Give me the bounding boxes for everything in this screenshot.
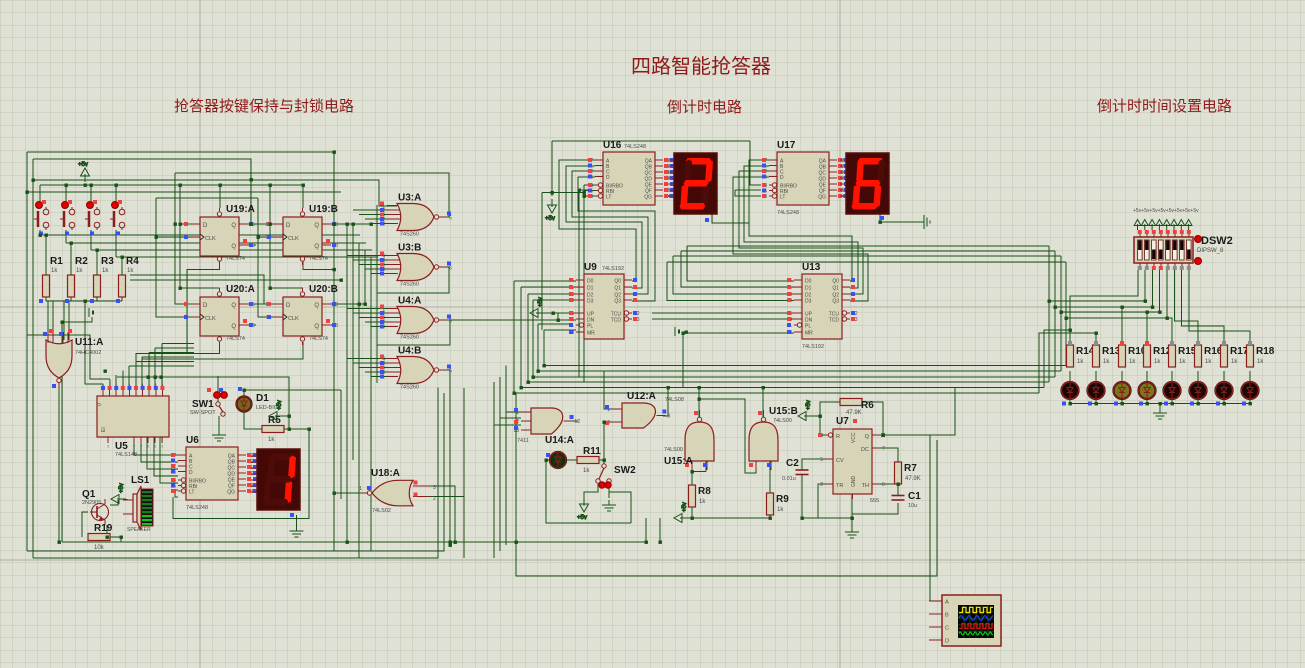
nor gate U18:A mirrored bbox=[359, 468, 436, 514]
svg-text:1k: 1k bbox=[102, 268, 109, 274]
svg-text:1k: 1k bbox=[127, 268, 134, 274]
svg-text:1k: 1k bbox=[1103, 359, 1110, 365]
svg-text:74LS00: 74LS00 bbox=[664, 447, 683, 453]
wire: battery drop bbox=[84, 301, 86, 307]
svg-text:+5v: +5v bbox=[538, 297, 544, 307]
svg-text:1k: 1k bbox=[777, 507, 784, 513]
power +5v bbox=[78, 162, 90, 182]
wire: R6 loop and 555 bbox=[820, 402, 840, 435]
push button 4 bbox=[110, 200, 125, 230]
power +5v bbox=[577, 498, 589, 521]
wire: U3B output down bbox=[377, 267, 449, 293]
svg-text:Q: Q bbox=[314, 223, 319, 229]
svg-text:QG: QG bbox=[227, 490, 235, 496]
push button 1 bbox=[34, 200, 49, 230]
svg-text:CLK: CLK bbox=[205, 316, 216, 322]
push button 3 bbox=[85, 200, 100, 230]
wire: U3A output loop bbox=[175, 173, 449, 217]
wire: 555 ground column bbox=[851, 494, 853, 527]
svg-text:SW-SPOT: SW-SPOT bbox=[190, 410, 216, 416]
svg-text:74S260: 74S260 bbox=[400, 335, 419, 341]
LED for R10 bbox=[1114, 382, 1131, 399]
svg-text:D0: D0 bbox=[805, 279, 812, 285]
oscilloscope bbox=[929, 595, 1001, 646]
svg-text:QG: QG bbox=[644, 195, 652, 201]
svg-text:TCD: TCD bbox=[829, 318, 840, 324]
resistor R9 bbox=[767, 493, 790, 515]
resistor R11 bbox=[577, 446, 601, 474]
svg-text:R3: R3 bbox=[101, 256, 114, 267]
resistor R19 bbox=[88, 523, 113, 551]
wire: gate input taps bbox=[353, 209, 397, 211]
svg-text:MR: MR bbox=[587, 331, 595, 337]
wire: 555 TR loop bbox=[818, 484, 852, 518]
svg-text:74LS148: 74LS148 bbox=[115, 452, 137, 458]
svg-text:+5v: +5v bbox=[545, 216, 555, 222]
svg-text:1k: 1k bbox=[268, 437, 275, 443]
resistor R18 bbox=[1247, 345, 1275, 367]
svg-text:Q: Q bbox=[314, 244, 319, 250]
power +5v dip 6 bbox=[1171, 220, 1178, 231]
svg-text:TR: TR bbox=[836, 483, 843, 489]
wire: right mid horizontals to DIP columns bbox=[1049, 300, 1145, 302]
svg-text:U19:B: U19:B bbox=[309, 204, 338, 215]
svg-text:Q: Q bbox=[231, 324, 236, 330]
counter U9 74LS192 bbox=[568, 262, 639, 339]
svg-text:R11: R11 bbox=[583, 446, 601, 457]
svg-text:U6: U6 bbox=[186, 435, 199, 446]
wire: U4B output down bbox=[444, 370, 450, 542]
seven segment display showing 1 bbox=[251, 449, 300, 510]
nor gate U3:A bbox=[379, 193, 452, 238]
wire: U18A inputs and output bbox=[334, 492, 361, 494]
svg-text:74LS248: 74LS248 bbox=[624, 144, 646, 150]
wire: U12A output up to bus bbox=[663, 388, 668, 417]
wire: button staircase row 2 bbox=[66, 242, 366, 244]
wire: U11A input feeds bbox=[47, 301, 49, 340]
svg-text:74LS192: 74LS192 bbox=[602, 266, 624, 272]
resistor R5 bbox=[262, 415, 284, 443]
push button 2 bbox=[60, 200, 75, 230]
power +5v dip 8 bbox=[1185, 220, 1192, 231]
and gate U12:A bbox=[605, 391, 684, 428]
nand gate U15:A bbox=[685, 410, 714, 470]
svg-text:6: 6 bbox=[449, 266, 452, 272]
flip-flop U20:A bbox=[184, 284, 255, 345]
wire: U6 LT RBI links bbox=[175, 489, 178, 491]
wire: FF preset/clear links bbox=[219, 185, 221, 208]
svg-text:R6: R6 bbox=[861, 400, 874, 411]
svg-text:CLK: CLK bbox=[288, 236, 299, 242]
svg-text:Q: Q bbox=[231, 223, 236, 229]
svg-text:DIPSW_8: DIPSW_8 bbox=[1197, 248, 1224, 254]
svg-text:6: 6 bbox=[882, 482, 885, 488]
wire: U9 nested loops to bus bbox=[514, 280, 576, 282]
nand gate U15:B bbox=[749, 406, 798, 470]
svg-text:C: C bbox=[945, 626, 949, 632]
LED D1 bbox=[237, 397, 252, 412]
transistor Q1 bbox=[90, 499, 109, 525]
wire: left long vertical 2 bbox=[32, 159, 34, 558]
and gate U14:A bbox=[513, 408, 580, 446]
wire: +5v into U9 UP bbox=[544, 312, 576, 314]
power +5v bbox=[798, 400, 812, 420]
wire: left long vertical 1 bbox=[26, 152, 28, 551]
junction dots bbox=[65, 184, 68, 187]
svg-text:U3:B: U3:B bbox=[398, 243, 421, 254]
svg-text:DC: DC bbox=[861, 447, 869, 453]
svg-text:CLK: CLK bbox=[288, 316, 299, 322]
svg-text:U15:A: U15:A bbox=[664, 456, 693, 467]
svg-text:1k: 1k bbox=[1205, 359, 1212, 365]
wire: R1-R4 verticals bbox=[45, 235, 47, 275]
svg-text:SW2: SW2 bbox=[614, 465, 636, 476]
display bottom squares bbox=[705, 218, 709, 222]
wire: SW1 column bbox=[217, 376, 219, 402]
wire: mid rows to U20 D inputs bbox=[130, 275, 274, 304]
svg-text:B: B bbox=[945, 613, 949, 619]
svg-text:LT: LT bbox=[780, 195, 785, 201]
svg-text:C1: C1 bbox=[908, 491, 921, 502]
svg-text:1k: 1k bbox=[76, 268, 83, 274]
power +5v bbox=[674, 502, 688, 522]
ground LED row bbox=[1153, 408, 1167, 419]
svg-text:U13: U13 bbox=[802, 262, 821, 273]
svg-text:U4:A: U4:A bbox=[398, 296, 421, 307]
svg-text:Q1: Q1 bbox=[832, 286, 839, 292]
svg-text:DSW2: DSW2 bbox=[1201, 235, 1233, 247]
svg-text:Q: Q bbox=[865, 434, 870, 440]
svg-text:D3: D3 bbox=[587, 299, 594, 305]
wire: U11A output down to bottom bus bbox=[58, 382, 60, 542]
nor gate U4:B bbox=[379, 346, 452, 391]
wire: U16 RBI LT drops bbox=[579, 190, 590, 377]
pin squares near buttons and resistors bbox=[39, 232, 43, 236]
svg-text:+5v: +5v bbox=[682, 502, 688, 512]
wire: R10 R12 drops from mid horizontals bbox=[1121, 307, 1123, 345]
svg-text:U19:A: U19:A bbox=[226, 204, 255, 215]
wire: bottom bus 558 bbox=[33, 388, 438, 559]
ground right of display2 bbox=[921, 215, 930, 229]
power +5v dip 1 bbox=[1134, 220, 1141, 231]
wire: dark LED loop bbox=[546, 459, 550, 461]
svg-text:3: 3 bbox=[433, 485, 436, 491]
wire: R8 column bbox=[691, 472, 693, 485]
wire: row y192 to vertical 341 bbox=[27, 191, 341, 193]
svg-text:U12:A: U12:A bbox=[627, 391, 656, 402]
wire: U12A input feeds bbox=[604, 371, 612, 409]
flip-flop U19:B bbox=[265, 204, 338, 265]
resistor R17 bbox=[1221, 345, 1249, 367]
svg-text:+5v+5v+5v+5v+5v+5v+5v+5v: +5v+5v+5v+5v+5v+5v+5v+5v bbox=[1133, 208, 1199, 214]
wire: D1 to R5 bbox=[244, 411, 262, 429]
wire: row y180 to U3A pin1 bbox=[33, 180, 397, 206]
capacitor C2 bbox=[796, 470, 809, 475]
LED for R12 bbox=[1139, 382, 1156, 399]
svg-text:D: D bbox=[945, 639, 949, 645]
wire: bundle verticals bbox=[346, 224, 348, 542]
svg-text:2N2905: 2N2905 bbox=[82, 500, 101, 506]
svg-text:1k: 1k bbox=[51, 268, 58, 274]
wire: U17 staircase from U13 bbox=[749, 160, 852, 281]
svg-text:74LS248: 74LS248 bbox=[777, 210, 799, 216]
resistor R12 bbox=[1144, 345, 1172, 367]
wire: U14A input feeds bbox=[505, 366, 507, 546]
nor gate U3:B bbox=[379, 243, 452, 288]
power +5v dip 5 bbox=[1163, 220, 1170, 231]
wire: FF D/CLK feeds bbox=[156, 197, 258, 199]
svg-text:74LS00: 74LS00 bbox=[773, 418, 792, 424]
svg-text:74LS74: 74LS74 bbox=[309, 336, 328, 342]
battery near U13 bbox=[675, 327, 679, 336]
svg-text:10u: 10u bbox=[908, 503, 917, 509]
svg-text:5: 5 bbox=[449, 319, 452, 325]
svg-text:7: 7 bbox=[882, 446, 885, 452]
flip-flop U19:A bbox=[184, 204, 255, 265]
wire: button column x=66 bbox=[65, 185, 67, 205]
wire: U17 BI RBI LT feeds bbox=[750, 141, 761, 185]
svg-text:1k: 1k bbox=[1154, 359, 1161, 365]
wire: display3 ground bbox=[296, 515, 298, 531]
resistor R1 bbox=[43, 256, 64, 297]
svg-text:EI: EI bbox=[101, 427, 107, 432]
svg-text:+5v: +5v bbox=[806, 400, 812, 410]
svg-text:555: 555 bbox=[870, 498, 879, 504]
wire: button staircase row 4 bbox=[116, 256, 378, 258]
nor gate U4:A bbox=[379, 296, 452, 341]
svg-text:SPEAKER: SPEAKER bbox=[127, 527, 151, 533]
wire: bottom bus 542 from R19 bbox=[62, 541, 648, 543]
svg-text:R8: R8 bbox=[698, 486, 711, 497]
svg-text:U14:A: U14:A bbox=[545, 435, 574, 446]
svg-text:R4: R4 bbox=[126, 256, 139, 267]
seven segment display showing 6 bbox=[840, 153, 889, 214]
wire: R11 to SW2 bbox=[599, 460, 604, 464]
resistor R15 bbox=[1169, 345, 1197, 367]
svg-text:74HC4002: 74HC4002 bbox=[75, 350, 101, 356]
resistor R10 bbox=[1119, 345, 1147, 367]
dip switch DSW2 bbox=[1134, 230, 1233, 270]
svg-text:+5v: +5v bbox=[78, 162, 88, 168]
svg-text:D: D bbox=[203, 303, 208, 309]
svg-text:QG: QG bbox=[818, 195, 826, 201]
svg-text:Q0: Q0 bbox=[614, 279, 621, 285]
seven segment display showing 2 bbox=[668, 153, 717, 214]
svg-text:1: 1 bbox=[359, 486, 362, 492]
svg-text:74LS74: 74LS74 bbox=[226, 336, 245, 342]
flip-flop U20:B bbox=[265, 284, 338, 345]
resistor R7 bbox=[895, 462, 921, 484]
wire: SW2 throw wires bbox=[584, 484, 598, 498]
svg-text:2: 2 bbox=[433, 496, 436, 502]
wire: U15A inputs bbox=[691, 461, 693, 472]
wire: top-left horizontal run 1 bbox=[27, 151, 334, 153]
svg-text:74S260: 74S260 bbox=[400, 385, 419, 391]
ground under 555 bbox=[845, 527, 859, 538]
wire: resistor bottom bus bbox=[46, 300, 122, 302]
wire: scope drop bbox=[929, 435, 931, 601]
svg-text:D1: D1 bbox=[805, 286, 812, 292]
svg-text:1k: 1k bbox=[699, 499, 706, 505]
svg-text:TCD: TCD bbox=[611, 318, 622, 324]
svg-text:74LS74: 74LS74 bbox=[226, 256, 245, 262]
svg-text:5: 5 bbox=[449, 216, 452, 222]
power +5v bbox=[545, 199, 557, 222]
wire: U9 TCU TCD cascade to U13 bbox=[652, 312, 794, 314]
svg-text:A: A bbox=[945, 600, 949, 606]
svg-text:倒计时电路: 倒计时电路 bbox=[667, 99, 742, 116]
svg-text:U17: U17 bbox=[777, 140, 796, 151]
wire: U14A output bbox=[566, 420, 578, 422]
svg-text:Q: Q bbox=[314, 303, 319, 309]
svg-text:1k: 1k bbox=[1257, 359, 1264, 365]
svg-text:U16: U16 bbox=[603, 140, 622, 151]
svg-text:Q: Q bbox=[314, 324, 319, 330]
wire: U4A output to U9 DN bbox=[444, 319, 576, 321]
svg-text:PL: PL bbox=[587, 324, 593, 330]
wire: button column x=91 bbox=[90, 185, 92, 205]
svg-text:+5v: +5v bbox=[577, 515, 587, 521]
svg-text:U20:B: U20:B bbox=[309, 284, 338, 295]
svg-text:74S260: 74S260 bbox=[400, 282, 419, 288]
wire: small risers on 542 line bbox=[645, 518, 647, 542]
svg-text:SW1: SW1 bbox=[192, 399, 214, 410]
svg-text:2: 2 bbox=[820, 482, 823, 488]
svg-text:Q3: Q3 bbox=[832, 299, 839, 305]
resistor R6 bbox=[840, 399, 862, 417]
wire: U16 BI feed and +5v stub bbox=[552, 140, 750, 142]
wire: U15A cross couple bbox=[698, 388, 700, 418]
wire: button column x=116 bbox=[115, 185, 117, 205]
wire: display1 bottom link bbox=[712, 214, 749, 223]
power +5v dip 4 bbox=[1156, 220, 1163, 231]
svg-text:D1: D1 bbox=[587, 286, 594, 292]
wire: display2 ground arm bbox=[880, 214, 921, 222]
svg-text:R: R bbox=[836, 434, 840, 440]
wire: LED row resistor links bbox=[1069, 371, 1071, 382]
wire: U5 outputs to U6 bbox=[134, 437, 178, 455]
resistor R13 bbox=[1093, 345, 1121, 367]
switch SW1 bbox=[190, 388, 227, 416]
wire: DIP pin routes bbox=[1070, 270, 1138, 345]
ground under SW2 bbox=[602, 500, 616, 511]
svg-text:D1: D1 bbox=[256, 393, 269, 404]
svg-text:U9: U9 bbox=[584, 262, 597, 273]
wire: speaker and Q1 bbox=[125, 499, 128, 500]
svg-text:U15:B: U15:B bbox=[769, 406, 798, 417]
svg-text:VCC: VCC bbox=[851, 432, 857, 443]
wire: long row to R5 node bbox=[117, 377, 289, 416]
LED for R15 bbox=[1164, 382, 1181, 399]
svg-text:D: D bbox=[286, 303, 291, 309]
svg-text:D: D bbox=[189, 470, 193, 476]
wire: D1 pin squares bbox=[238, 387, 242, 391]
wire: U15B output to bus bbox=[762, 388, 764, 418]
svg-text:Q1: Q1 bbox=[614, 286, 621, 292]
resistor R2 bbox=[68, 256, 89, 297]
svg-text:R19: R19 bbox=[94, 523, 113, 534]
svg-text:CLK: CLK bbox=[205, 236, 216, 242]
wire: U16 BI RBI LT tie bbox=[542, 192, 584, 194]
svg-text:R9: R9 bbox=[776, 494, 789, 505]
wire: LED bottom bus bbox=[1070, 403, 1250, 405]
svg-text:74LS248: 74LS248 bbox=[186, 505, 208, 511]
power +5v dip 2 bbox=[1141, 220, 1148, 231]
svg-text:LS1: LS1 bbox=[131, 475, 150, 486]
svg-text:12: 12 bbox=[575, 419, 581, 425]
svg-text:R7: R7 bbox=[904, 463, 917, 474]
svg-text:+5v: +5v bbox=[119, 483, 125, 493]
svg-text:47.9K: 47.9K bbox=[905, 476, 921, 482]
svg-text:1k: 1k bbox=[1179, 359, 1186, 365]
resistor R8 bbox=[689, 485, 712, 507]
wire: +5v rail bbox=[40, 184, 303, 186]
svg-text:Q: Q bbox=[231, 244, 236, 250]
wire: button column x=40 bbox=[39, 185, 41, 205]
svg-text:1k: 1k bbox=[1077, 359, 1084, 365]
svg-text:U11:A: U11:A bbox=[75, 337, 103, 348]
svg-text:D0: D0 bbox=[587, 279, 594, 285]
resistor R14 bbox=[1067, 345, 1095, 367]
LED for R13 bbox=[1088, 382, 1105, 399]
counter U13 74LS192 bbox=[786, 262, 857, 350]
svg-text:U4:B: U4:B bbox=[398, 346, 421, 357]
wire: FF Q outputs to bundle bbox=[248, 223, 371, 225]
svg-text:LT: LT bbox=[606, 195, 611, 201]
svg-text:0: 0 bbox=[97, 403, 103, 406]
battery B1 bbox=[89, 308, 93, 317]
decoder U6 74LS248 bbox=[171, 435, 257, 511]
svg-text:R2: R2 bbox=[75, 256, 88, 267]
svg-text:74LS02: 74LS02 bbox=[372, 508, 391, 514]
svg-text:MR: MR bbox=[805, 331, 813, 337]
wire: button staircase row 1 bbox=[40, 234, 360, 236]
svg-text:74LS74: 74LS74 bbox=[309, 256, 328, 262]
LED for R18 bbox=[1242, 382, 1259, 399]
LED for R16 bbox=[1190, 382, 1207, 399]
svg-text:Q: Q bbox=[231, 303, 236, 309]
svg-text:R18: R18 bbox=[1256, 346, 1275, 357]
svg-text:D: D bbox=[780, 175, 784, 181]
svg-text:D: D bbox=[286, 223, 291, 229]
svg-text:Q1: Q1 bbox=[82, 489, 96, 500]
svg-text:CV: CV bbox=[836, 458, 844, 464]
wire: U16-U9 staircase bbox=[559, 160, 636, 281]
svg-text:Q3: Q3 bbox=[614, 299, 621, 305]
speaker LS1 bbox=[123, 486, 153, 530]
wire: D1 top link bbox=[244, 390, 341, 397]
svg-text:U20:A: U20:A bbox=[226, 284, 255, 295]
svg-text:倒计时时间设置电路: 倒计时时间设置电路 bbox=[1097, 98, 1232, 115]
wire: upper right horizontals feeding U13 data pins bbox=[687, 245, 1049, 247]
svg-text:74LS192: 74LS192 bbox=[802, 344, 824, 350]
svg-text:6: 6 bbox=[449, 369, 452, 375]
power +5v dip 3 bbox=[1149, 220, 1156, 231]
power +5v dip 7 bbox=[1178, 220, 1185, 231]
power +5v bbox=[530, 297, 544, 317]
svg-text:四路智能抢答器: 四路智能抢答器 bbox=[631, 55, 771, 78]
svg-text:U18:A: U18:A bbox=[371, 468, 400, 479]
power +5v bbox=[111, 483, 125, 503]
LED for R14 bbox=[1062, 382, 1079, 399]
svg-text:抢答器按键保持与封锁电路: 抢答器按键保持与封锁电路 bbox=[174, 97, 354, 115]
svg-text:10k: 10k bbox=[94, 545, 105, 551]
svg-text:D: D bbox=[203, 223, 208, 229]
resistor R3 bbox=[94, 256, 115, 297]
nor gate U11:A bbox=[43, 329, 103, 390]
svg-text:7411: 7411 bbox=[517, 438, 529, 444]
wire: scope feed horizontal bbox=[516, 393, 937, 576]
